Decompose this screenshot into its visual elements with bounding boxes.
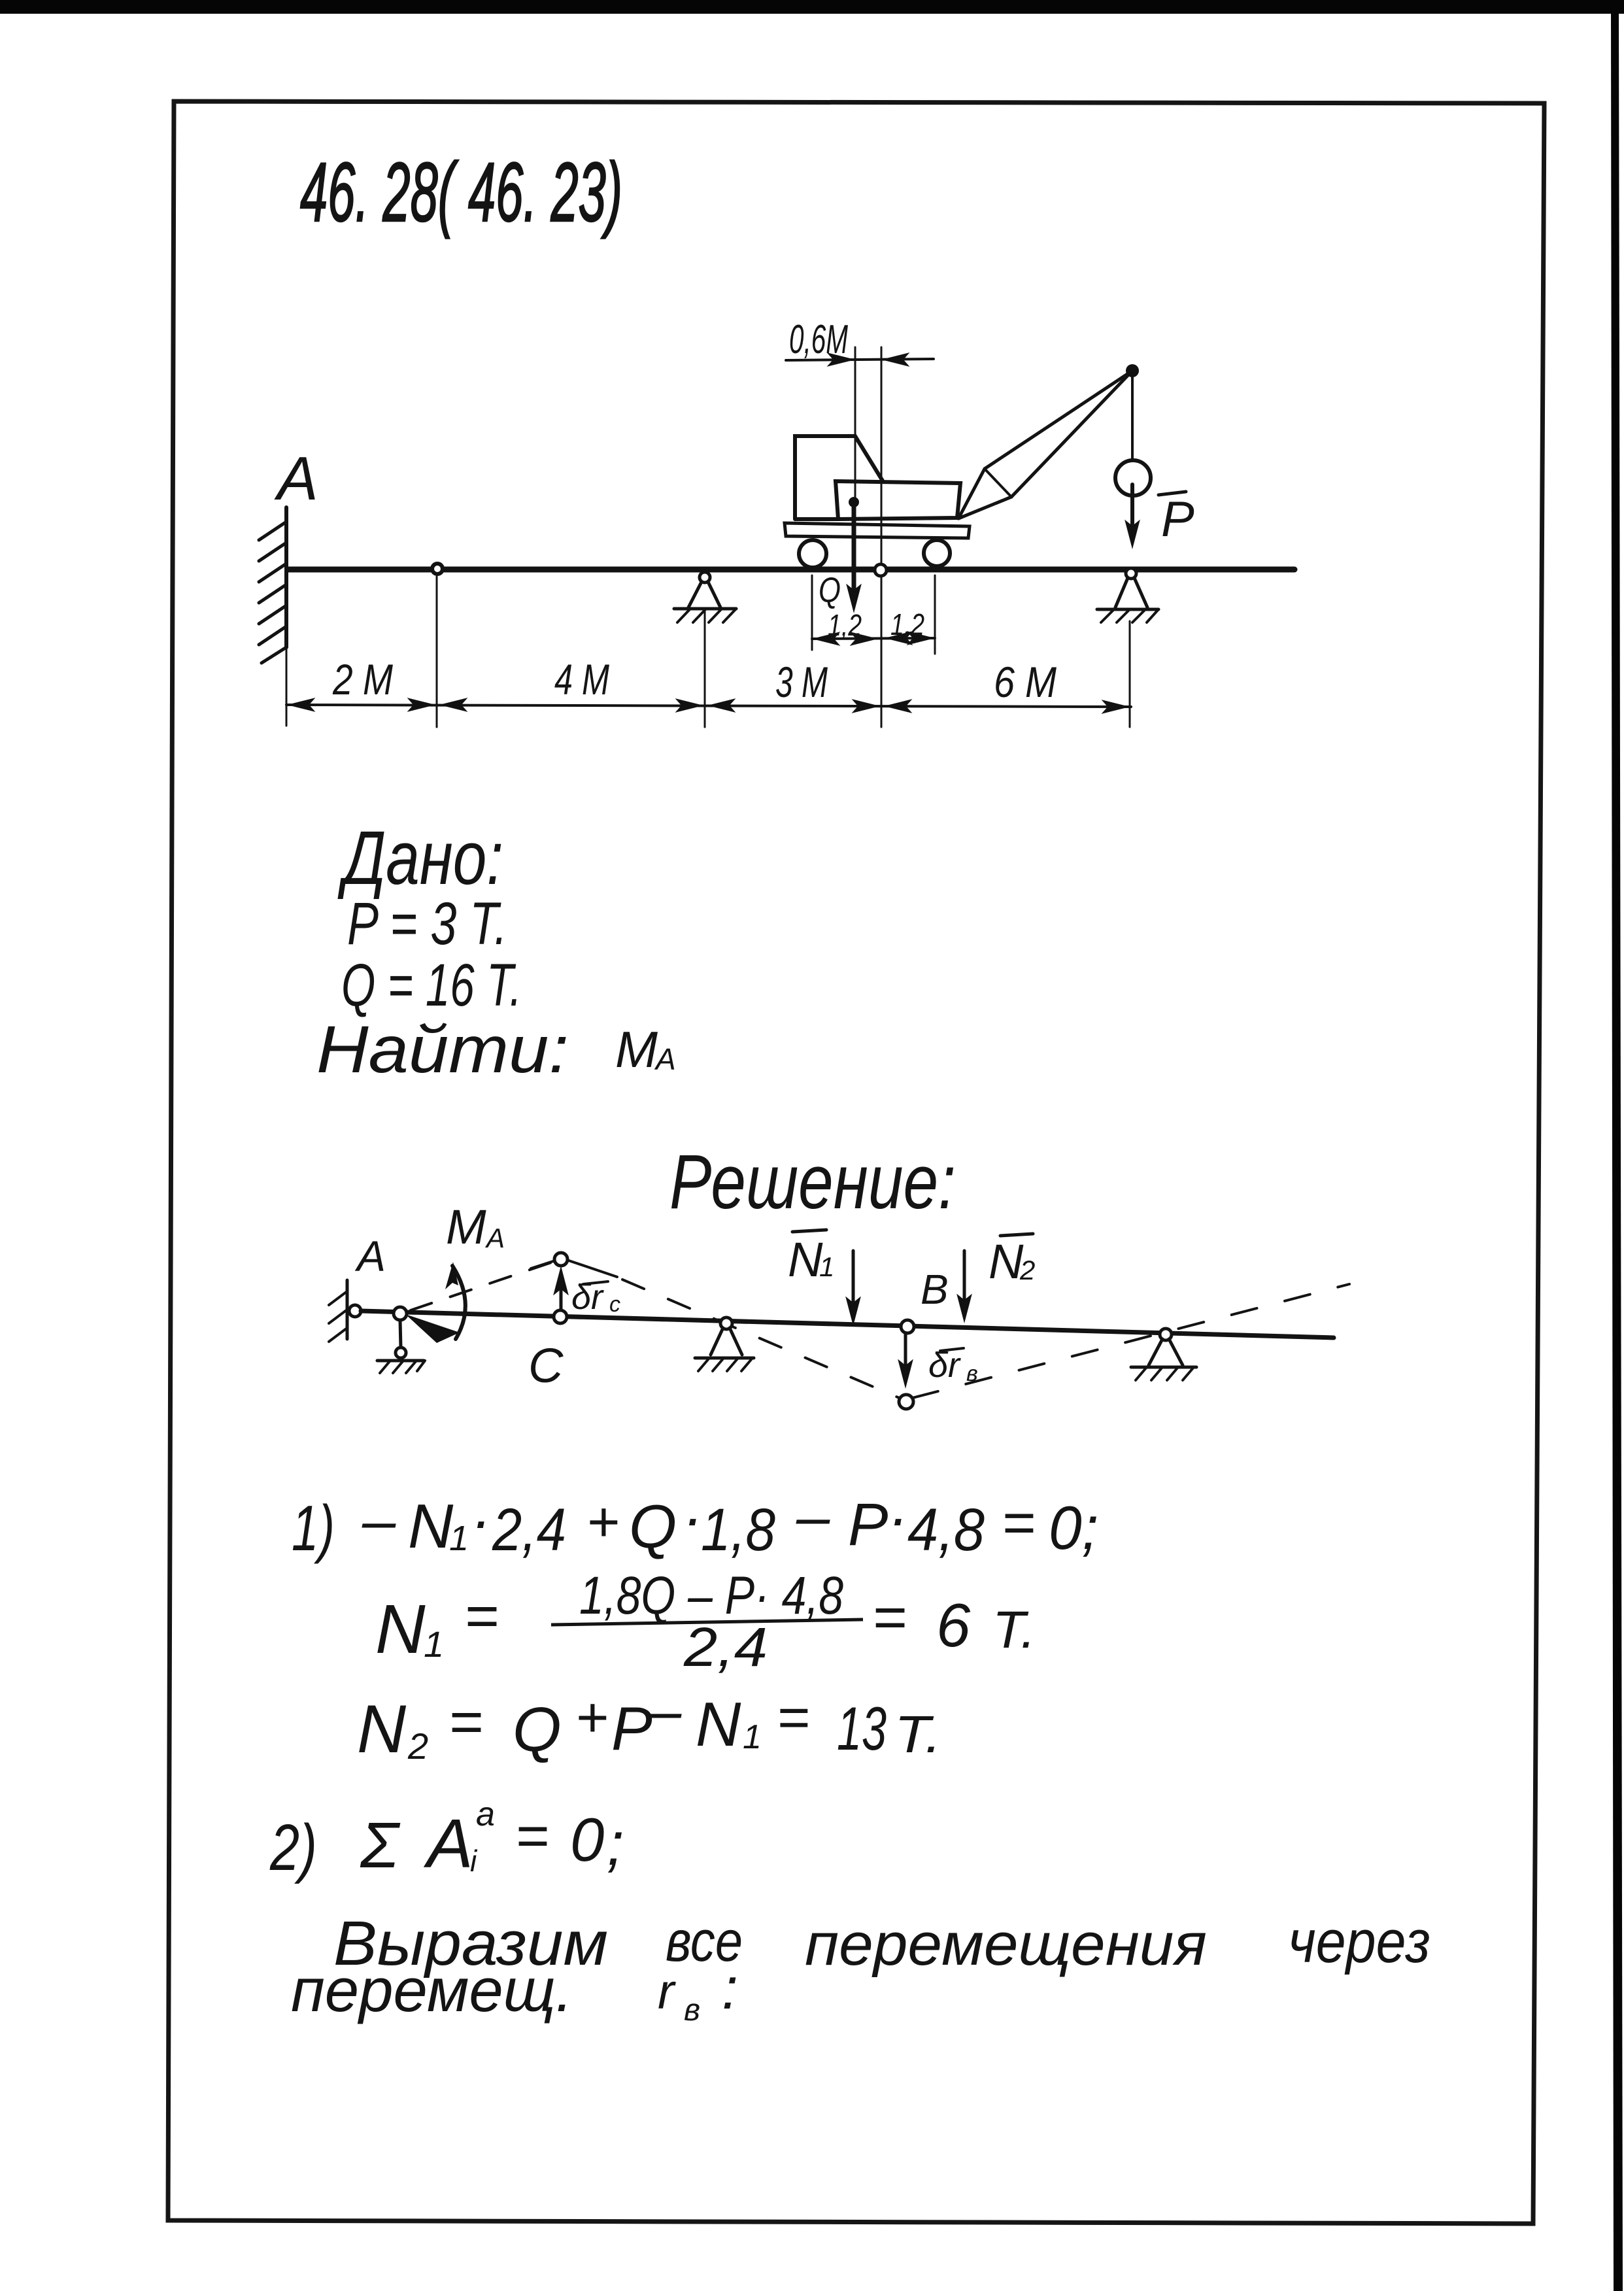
svg-text:Q: Q: [629, 1492, 677, 1561]
svg-text:=: =: [448, 1689, 483, 1755]
right support triangle (solution): [1149, 1339, 1183, 1365]
crane boom base edge 1: [958, 469, 985, 518]
svg-text:N: N: [788, 1232, 823, 1287]
delta r_C arrow: [560, 1276, 563, 1313]
svg-text:A: A: [274, 444, 318, 513]
svg-text:c: c: [609, 1292, 620, 1317]
force P arrow: [1130, 484, 1134, 533]
extension line from right support: [1129, 621, 1131, 727]
support ground hatching (middle support): [677, 609, 736, 622]
equation 1 item number: [292, 1484, 1098, 1564]
beam (solution sketch): [361, 1311, 1334, 1338]
crane body: [836, 481, 960, 519]
svg-text:+: +: [575, 1686, 608, 1749]
svg-text:M: M: [446, 1200, 486, 1254]
scanner black bar top: [0, 0, 1624, 14]
svg-text:;: ;: [607, 1809, 624, 1878]
svg-text:46. 28( 46. 23): 46. 28( 46. 23): [300, 146, 622, 239]
right support ground line (solution): [1131, 1366, 1196, 1369]
crane boom fold edge: [985, 469, 1011, 497]
crane boom lower chord: [1011, 371, 1132, 497]
svg-text:Найти:: Найти:: [316, 1012, 569, 1087]
label N2 with overbar: [1000, 1234, 1033, 1236]
svg-text:перемещ.: перемещ.: [291, 1956, 573, 2024]
delta r_B arrow: [904, 1334, 907, 1374]
svg-text:Q: Q: [513, 1695, 562, 1765]
svg-text:1,2: 1,2: [828, 608, 862, 642]
moment arc arrowhead: [445, 1262, 458, 1289]
label N1 with overbar: [792, 1230, 826, 1232]
svg-text:2: 2: [407, 1725, 428, 1767]
middle support ground hatching (solution): [698, 1358, 753, 1371]
svg-text:2: 2: [1019, 1255, 1035, 1285]
svg-text:=: =: [777, 1686, 809, 1749]
node C circle on beam: [554, 1310, 567, 1323]
svg-text:·: ·: [683, 1485, 703, 1552]
svg-text:1: 1: [449, 1519, 469, 1558]
svg-text:N: N: [357, 1691, 407, 1767]
svg-text:A: A: [423, 1805, 473, 1882]
svg-text:–: –: [647, 1678, 682, 1744]
pulley block: [1115, 460, 1151, 496]
main dimension line: [286, 705, 1131, 707]
svg-text:6 M: 6 M: [994, 658, 1057, 706]
svg-text:P: P: [1161, 492, 1194, 547]
svg-text:P = 3 Т.: P = 3 Т.: [347, 891, 507, 957]
svg-text:B: B: [921, 1266, 949, 1313]
node B circle on beam: [901, 1320, 914, 1333]
wall stub hatching: [329, 1291, 347, 1342]
fraction bar: [551, 1620, 863, 1625]
right support pin circle (solution): [1160, 1329, 1172, 1340]
wall line at A: [284, 507, 288, 647]
crane platform: [785, 523, 970, 538]
svg-text:N: N: [989, 1234, 1024, 1289]
axle mid node circle on beam: [875, 564, 887, 576]
support ground hatching at A: [380, 1361, 425, 1373]
extension line from middle support: [704, 611, 706, 727]
hinge node on beam: [432, 564, 443, 574]
svg-text:6: 6: [936, 1591, 971, 1659]
dashed displaced beam C' to B': [622, 1280, 902, 1399]
svg-text:a: a: [476, 1795, 495, 1833]
wall pin circle at A: [349, 1305, 361, 1317]
right support pin circle: [1126, 568, 1136, 579]
svg-text:A: A: [354, 1232, 386, 1280]
svg-text:2,4: 2,4: [492, 1497, 566, 1563]
hoist cable: [1131, 377, 1134, 460]
svg-text:Решение:: Решение:: [669, 1139, 956, 1225]
raised point C' circle: [554, 1253, 567, 1266]
right support ground line: [1097, 608, 1159, 611]
dashed displaced beam A to C': [411, 1262, 553, 1310]
svg-text:через: через: [1288, 1909, 1430, 1975]
wall stub at A: [346, 1280, 349, 1339]
extension line from hinge node: [436, 577, 438, 727]
crane boom base edge 2: [958, 497, 1011, 518]
support ground line (middle support): [674, 607, 736, 611]
crane boom upper chord: [985, 371, 1132, 469]
svg-text:=: =: [515, 1803, 549, 1868]
svg-text:1,8: 1,8: [701, 1497, 775, 1563]
right support ground hatching (solution): [1136, 1367, 1194, 1380]
displaced beam solid piece left of C': [531, 1261, 553, 1268]
svg-text:P: P: [848, 1491, 888, 1558]
scanner black edge right: [1611, 0, 1623, 2291]
svg-text:A: A: [484, 1223, 505, 1253]
displaced point B' circle: [899, 1395, 913, 1409]
support link under pin: [400, 1320, 401, 1348]
svg-text:N: N: [375, 1591, 426, 1668]
svg-text:Q: Q: [819, 571, 841, 610]
middle support ground line (solution): [695, 1357, 754, 1360]
svg-text:·: ·: [471, 1487, 491, 1554]
force N1 arrow: [852, 1251, 855, 1313]
dimension line 1,2 / 1,2: [812, 638, 935, 639]
svg-text:i: i: [470, 1844, 478, 1878]
svg-text:C: C: [528, 1338, 564, 1393]
svg-text:13: 13: [837, 1694, 887, 1763]
moment arc M_A: [452, 1266, 465, 1339]
svg-text:0,6M: 0,6M: [789, 317, 848, 362]
svg-text:в: в: [684, 1993, 700, 2028]
page frame border: [168, 101, 1544, 2224]
svg-text:P: P: [611, 1694, 652, 1763]
svg-text:2 M: 2 M: [332, 655, 393, 704]
svg-text:Σ: Σ: [360, 1809, 401, 1881]
force Q arrow: [852, 507, 856, 596]
svg-text:0;: 0;: [1049, 1493, 1098, 1562]
svg-text:N: N: [696, 1689, 741, 1759]
svg-text:r: r: [658, 1964, 676, 2020]
crane cab: [795, 436, 883, 519]
wall extension line: [286, 647, 288, 726]
svg-text:1: 1: [743, 1718, 762, 1756]
svg-text:0: 0: [570, 1805, 604, 1874]
svg-text:Т.: Т.: [992, 1601, 1036, 1659]
middle support pin circle (solution): [720, 1317, 732, 1329]
svg-text:Т.: Т.: [894, 1705, 941, 1763]
svg-text:1: 1: [819, 1251, 834, 1282]
crane axle centre line: [881, 347, 883, 727]
centre of gravity dot: [849, 497, 859, 507]
svg-text:=: =: [872, 1585, 907, 1650]
beam (main): [288, 567, 1294, 573]
svg-text:–: –: [796, 1484, 830, 1550]
support link circle: [396, 1348, 406, 1358]
support ground line at A: [377, 1359, 424, 1363]
dashed displaced beam B' to right end: [913, 1284, 1349, 1398]
svg-text:перемещения: перемещения: [805, 1911, 1207, 1978]
crane wheel right: [924, 540, 950, 566]
svg-text:+: +: [586, 1491, 619, 1553]
svg-text:–: –: [362, 1487, 396, 1554]
svg-text:1): 1): [292, 1492, 335, 1564]
svg-text:1,2: 1,2: [890, 607, 924, 641]
svg-text:=: =: [1002, 1490, 1035, 1555]
svg-text:2): 2): [269, 1811, 317, 1884]
displaced beam solid piece right of C': [569, 1261, 617, 1277]
svg-text:Q = 16 Т.: Q = 16 Т.: [341, 952, 522, 1019]
support triangle (middle support): [688, 582, 720, 607]
svg-text:4 M: 4 M: [554, 655, 609, 704]
pin circle right of A: [394, 1307, 407, 1320]
boom apex pin: [1126, 364, 1139, 377]
svg-text:М: М: [615, 1021, 658, 1078]
svg-text:Дано:: Дано:: [337, 815, 503, 900]
svg-text:А: А: [654, 1042, 676, 1076]
force N2 arrow: [963, 1251, 966, 1310]
svg-text:N: N: [408, 1491, 454, 1561]
middle support triangle (solution): [711, 1328, 742, 1355]
right support triangle: [1115, 578, 1147, 607]
right support ground hatching: [1101, 609, 1159, 622]
filled angle wedge at pin: [405, 1314, 460, 1343]
wheel extension line left: [811, 575, 813, 650]
wall hatching: [259, 522, 286, 663]
svg-text:=: =: [464, 1584, 499, 1649]
support pin circle (middle support): [700, 572, 710, 583]
svg-text:1: 1: [424, 1623, 444, 1665]
crane wheel left: [799, 540, 826, 568]
svg-text::: :: [722, 1956, 738, 2022]
svg-text:2,4: 2,4: [683, 1616, 768, 1678]
svg-text:4,8: 4,8: [907, 1497, 985, 1563]
svg-text:3 M: 3 M: [775, 658, 828, 706]
dimension line 0,6M: [786, 359, 934, 360]
svg-text:·: ·: [888, 1485, 908, 1552]
centre-of-gravity line (Q line): [854, 347, 856, 500]
wheel extension line right: [934, 575, 936, 654]
